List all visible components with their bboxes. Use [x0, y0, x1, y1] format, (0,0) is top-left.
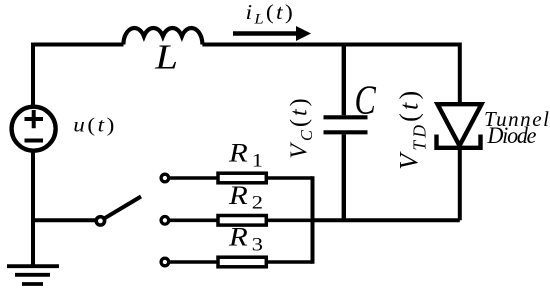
svg-text:L: L — [154, 38, 178, 77]
svg-text:Diode: Diode — [487, 123, 537, 149]
svg-text:iL(t): iL(t) — [246, 0, 295, 27]
svg-text:u(t): u(t) — [73, 114, 117, 136]
svg-text:C: C — [355, 77, 377, 123]
svg-text:VC(t): VC(t) — [287, 95, 317, 158]
